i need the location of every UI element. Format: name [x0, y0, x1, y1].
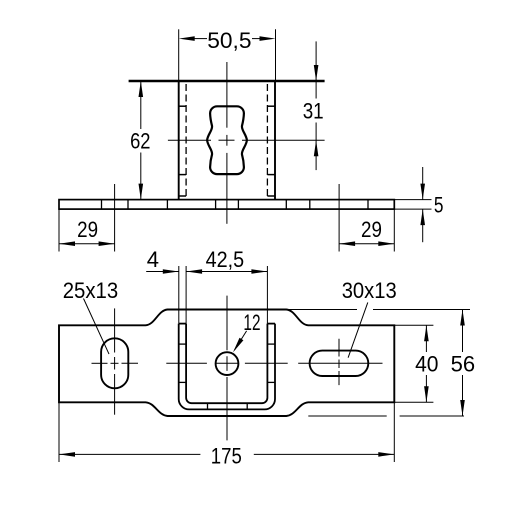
dimension 42,5: [179, 247, 268, 324]
dimension 31: [303, 41, 324, 170]
arm hole tick right upper: [267, 343, 275, 345]
svg-text:40: 40: [415, 351, 438, 376]
plate outline with tapers: [59, 310, 394, 417]
dimension 40: [394, 325, 438, 402]
tube right wall: [274, 81, 276, 200]
channel U inner outline: [186, 324, 267, 404]
arm hole tick left upper: [179, 343, 186, 345]
tube left wall: [178, 81, 180, 200]
tube inner wall hidden line left: [185, 84, 187, 196]
plate tick slot2 right: [367, 200, 369, 210]
base plate outline: [59, 200, 394, 210]
svg-text:175: 175: [211, 444, 242, 469]
dimension 175: [59, 402, 394, 468]
plate tick slot2 left: [309, 200, 311, 210]
hole vertical centerline: [226, 62, 228, 128]
dimension 29 left: [59, 184, 115, 252]
hole horizontal centerline: [168, 139, 211, 141]
main horizontal centerline: [92, 362, 108, 364]
web hole tick right: [246, 403, 248, 409]
plate tick hole right: [237, 200, 239, 210]
channel arm end cap right: [267, 323, 275, 325]
plate tick taper right: [285, 200, 287, 210]
slot 30x13: [310, 351, 369, 376]
svg-text:31: 31: [303, 99, 324, 124]
dimension 4: [146, 247, 179, 274]
dimension 62: [130, 81, 150, 200]
label 12 with leader: [233, 310, 261, 353]
svg-text:5: 5: [434, 193, 444, 218]
channel lip tick left bottom: [179, 195, 186, 197]
svg-text:4: 4: [147, 247, 159, 272]
dimension 50,5: [179, 28, 276, 81]
center hole circle: [216, 352, 239, 375]
main vertical centerline: [226, 296, 228, 351]
tube top edge (thick): [129, 80, 325, 83]
slot 25x13: [101, 338, 128, 388]
channel U outer outline: [179, 324, 275, 410]
dimension 56: [286, 310, 475, 417]
svg-text:56: 56: [451, 351, 476, 376]
side hole edge tick left bottom: [179, 174, 186, 176]
tube inner wall hidden line right: [266, 84, 268, 196]
dimension 5 (plate thickness): [394, 167, 443, 242]
svg-text:29: 29: [77, 217, 98, 242]
label 30x13 with leader: [342, 278, 397, 358]
svg-text:30x13: 30x13: [342, 278, 397, 303]
plate tick taper left: [166, 200, 168, 210]
label 25x13 with leader: [63, 278, 118, 354]
plate tick slot1 left: [101, 200, 103, 210]
slot2 vertical centerline: [338, 339, 340, 357]
side hole edge tick left top: [179, 105, 186, 107]
slot1 vertical centerline: [114, 308, 116, 352]
channel arm end cap left: [179, 323, 186, 325]
dimension 29 right: [339, 184, 394, 252]
svg-text:62: 62: [130, 129, 150, 154]
side hole edge tick right bottom: [267, 174, 275, 176]
svg-text:29: 29: [361, 217, 382, 242]
stanchion hole outline: [207, 106, 247, 174]
svg-text:50,5: 50,5: [207, 28, 251, 53]
plate tick hole left: [215, 200, 217, 210]
web hole tick left: [207, 403, 209, 409]
arm hole tick left lower: [179, 381, 186, 383]
svg-text:25x13: 25x13: [63, 278, 118, 303]
channel lip tick right bottom: [267, 195, 275, 197]
plate tick slot1 right: [127, 200, 129, 210]
side hole edge tick right top: [267, 105, 275, 107]
svg-text:42,5: 42,5: [206, 247, 245, 272]
arm hole tick right lower: [267, 381, 275, 383]
